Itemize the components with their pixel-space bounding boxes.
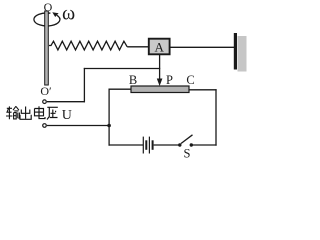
spring between rod and block A bbox=[49, 41, 127, 50]
hanzi ya (pressure) bbox=[47, 107, 58, 119]
wire wiper tap horizontal bbox=[84, 68, 160, 70]
wire battery to switch bbox=[154, 144, 180, 146]
wire tap vertical down bbox=[83, 68, 85, 102]
rotation arrowhead bbox=[52, 12, 58, 17]
wire block A to wall bbox=[170, 46, 235, 48]
svg-text:B: B bbox=[129, 73, 137, 87]
wire switch to right corner bbox=[191, 144, 216, 146]
svg-text:S: S bbox=[184, 147, 191, 161]
junction dot on left loop wire bbox=[107, 124, 111, 128]
switch right contact dot bbox=[190, 143, 193, 146]
upper output terminal bbox=[43, 100, 47, 104]
wire left vertical of battery loop bbox=[108, 89, 110, 146]
wire pot left end to loop bbox=[109, 88, 132, 90]
battery long plate 1 bbox=[142, 137, 144, 154]
wire right vertical of battery loop bbox=[215, 89, 217, 146]
potentiometer body B-C bbox=[131, 86, 189, 93]
shaft rod O-O' bbox=[45, 11, 49, 85]
wire pot right end to loop bbox=[189, 89, 217, 91]
battery long plate 2 bbox=[148, 137, 150, 154]
switch pivot contact dot bbox=[178, 143, 181, 146]
svg-text:A: A bbox=[155, 39, 165, 54]
block A bbox=[149, 39, 170, 55]
hanzi dian (electric) bbox=[35, 106, 46, 118]
wiper stem from A down to potentiometer bbox=[159, 55, 161, 82]
lower output terminal bbox=[43, 124, 47, 128]
svg-text:U: U bbox=[62, 108, 72, 123]
hanzi shu (transport) bbox=[6, 106, 19, 119]
svg-text:C: C bbox=[186, 73, 194, 87]
wire bottom left to battery bbox=[109, 144, 144, 146]
wall bar bbox=[234, 33, 237, 70]
svg-text:O′: O′ bbox=[40, 84, 52, 98]
battery short plate 1 bbox=[145, 140, 147, 150]
svg-text:P: P bbox=[166, 73, 173, 87]
wire from lower terminal to loop bbox=[47, 125, 110, 127]
hanzi chu (out) bbox=[20, 107, 31, 120]
battery short plate 2 bbox=[152, 140, 154, 150]
wall shadow band bbox=[238, 36, 247, 72]
wire to upper output terminal bbox=[47, 101, 85, 103]
svg-text:ω: ω bbox=[62, 3, 75, 25]
rotation arrow ellipse around shaft bbox=[34, 13, 60, 26]
switch blade bbox=[181, 135, 193, 144]
wiper arrowhead P bbox=[157, 79, 163, 87]
wire spring to block A bbox=[127, 46, 148, 48]
